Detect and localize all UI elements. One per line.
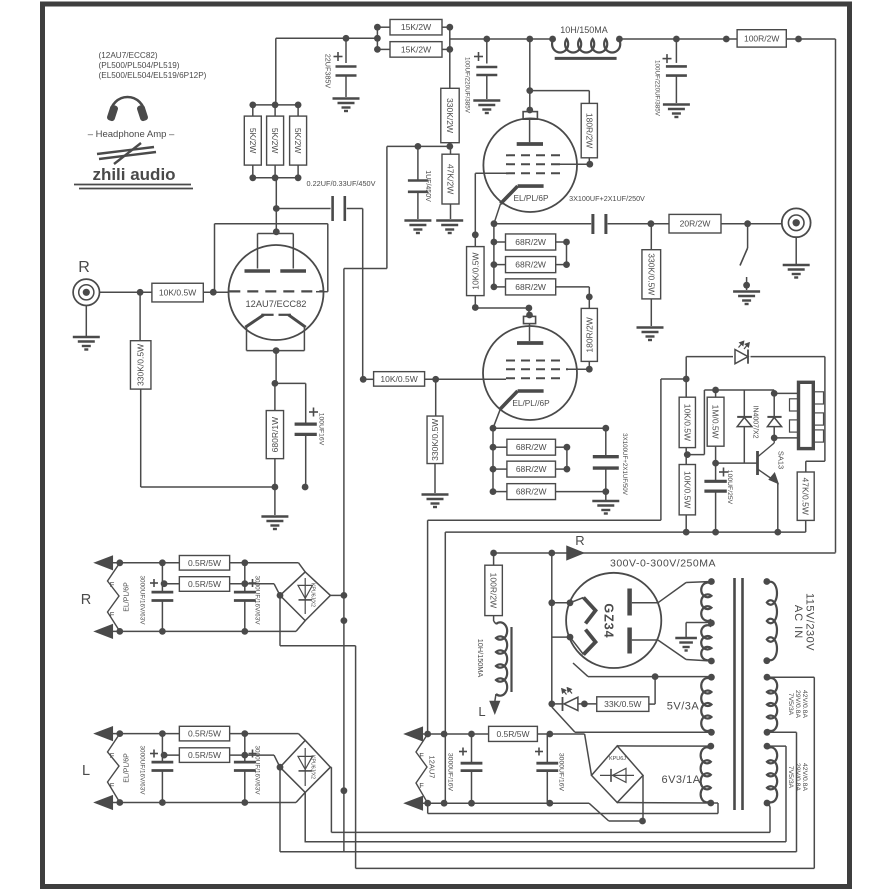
resistor 330K/2W (441, 88, 459, 142)
node 1M top (712, 387, 719, 394)
svg-text:KPU6J: KPU6J (609, 756, 626, 762)
wire coupling to lower grid (362, 209, 364, 380)
node mid 10K (684, 451, 691, 458)
V2 anode stem and plate (529, 119, 531, 142)
node R top row (116, 559, 123, 566)
wire 330K input leads (139, 292, 141, 340)
12AU7 grid dashes (229, 290, 323, 292)
node AC primary terminals (763, 578, 770, 585)
ground below 1UF/450V (404, 219, 431, 221)
LED indicator (bias) (735, 350, 748, 364)
node grid input (210, 289, 217, 296)
wire secondary link W5 top (767, 676, 814, 678)
svg-text:3X100UF+2X1UF/50V: 3X100UF+2X1UF/50V (621, 433, 628, 496)
resistor 10K/0.5W (input) (152, 283, 203, 302)
tube V2 EL/PL/6P envelope (483, 118, 577, 212)
svg-text:15K/2W: 15K/2W (401, 22, 431, 32)
wire V2 control grid (475, 172, 506, 174)
wire V3 grid leads (363, 378, 374, 380)
capacitor 1UF/450V (417, 146, 419, 180)
svg-text:AC IN: AC IN (792, 605, 804, 639)
node bias bottom rail (683, 529, 690, 536)
wire 100R to choke (493, 553, 495, 565)
wire lower 180R leads (588, 297, 590, 309)
resistor 0.5R/5W (12AU7 heater) (489, 726, 538, 741)
wire 47K/2W leads (450, 146, 452, 154)
capacitor 22UF385V (345, 38, 347, 63)
capacitor 0.22UF coupling (276, 208, 330, 210)
svg-text:7V5/3A: 7V5/3A (787, 693, 794, 716)
zhili audio logo (97, 147, 154, 154)
resistor 0.5R/5W (L lower) (179, 748, 229, 763)
transformer secondary 7V5 (lower) (767, 747, 777, 802)
wire heater bottom row (422, 802, 589, 804)
V3 anode stem and plate (529, 324, 531, 341)
ground below 47K/2W (436, 219, 463, 221)
svg-text:10H/150MA: 10H/150MA (560, 25, 608, 35)
svg-text:(EL500/EL504/EL519/6P12P): (EL500/EL504/EL519/6P12P) (99, 71, 207, 80)
svg-text:1UF/450V: 1UF/450V (424, 170, 431, 202)
node bias rail taps (415, 143, 422, 150)
svg-text:0.5R/5W: 0.5R/5W (496, 729, 529, 739)
svg-text:68R/2W: 68R/2W (516, 442, 547, 452)
node R AC right (341, 592, 348, 599)
svg-text:F: F (110, 751, 115, 760)
svg-text:42V/0.8A: 42V/0.8A (801, 763, 808, 791)
ground below first filter cap (473, 99, 500, 101)
connector RCA output (782, 208, 811, 237)
wire secondary link W5 bottom (767, 731, 797, 733)
wire V3 330K leads (435, 379, 437, 416)
capacitor 100UF/220UF/385V (second) (675, 39, 677, 63)
svg-text:6V3/1A: 6V3/1A (661, 774, 700, 786)
wire heater top row (422, 733, 585, 735)
wire output RCA ground (795, 237, 797, 264)
svg-text:3000UF/16V: 3000UF/16V (447, 753, 454, 792)
resistor 68R/2W (lower 1) (507, 439, 556, 455)
node 15K left (374, 24, 381, 31)
wire V2 cathode resistor rail (493, 224, 495, 287)
svg-text:330K/0.5W: 330K/0.5W (430, 419, 440, 461)
node screen node (586, 161, 593, 168)
svg-text:(PL500/PL504/PL519): (PL500/PL504/PL519) (99, 61, 180, 70)
tube 12AU7/ECC82 envelope (229, 245, 324, 340)
node LED right (581, 701, 588, 708)
wire bias link upper (428, 519, 661, 521)
capacitor 3X100UF+2X1UF/50V bypass (605, 428, 607, 456)
capacitor 3X100UF+2X1UF/250V output (591, 214, 594, 234)
svg-text:R: R (81, 592, 91, 608)
wire secondary link W6 top (767, 745, 786, 747)
resistor 15K/2W (upper) (390, 19, 442, 35)
node bias top (683, 376, 690, 383)
wire 180R to screen (588, 158, 590, 164)
svg-text:5K/2W: 5K/2W (270, 128, 280, 154)
resistor 5K/2W (left) (244, 116, 261, 165)
12AU7 cathode bracket (246, 327, 248, 350)
svg-text:5K/2W: 5K/2W (248, 128, 258, 154)
resistor 33K/0.5W (597, 697, 649, 712)
wire V3 cathode resistor rail (492, 428, 494, 491)
node L top row (116, 730, 123, 737)
resistor 100R/2W (choke feed) (485, 565, 503, 615)
node 15K right (446, 24, 453, 31)
svg-text:IN4007/X2: IN4007/X2 (752, 405, 759, 438)
wire 12AU7 anode feed (275, 178, 277, 232)
wire bias ground stem (274, 487, 276, 515)
capacitor 3000UF/16V/63V (L second) (244, 734, 246, 762)
transformer secondary 7V5 (upper) (767, 678, 777, 731)
node V3 grid (360, 376, 367, 383)
resistor 180R/2W (lower) (581, 308, 597, 361)
svg-text:68R/2W: 68R/2W (515, 282, 546, 292)
node lower secondary terminals (764, 743, 771, 750)
wire bias link lower (444, 532, 446, 803)
node GZ34 output to LED (548, 599, 555, 606)
svg-text:10K/0.5W: 10K/0.5W (682, 471, 692, 508)
12AU7 anode bracket (258, 233, 294, 235)
node 6V3 winding terminals (707, 743, 714, 750)
wire HV center tap (698, 622, 712, 624)
svg-text:100UF/220UF/385V: 100UF/220UF/385V (654, 60, 661, 117)
svg-text:180R/2W: 180R/2W (584, 113, 594, 148)
capacitor 100UF/25V (715, 463, 717, 481)
V3 cathode bar and slant (518, 389, 544, 393)
svg-text:0.5R/5W: 0.5R/5W (188, 729, 221, 739)
svg-text:29V/0.8A: 29V/0.8A (794, 690, 801, 718)
svg-text:L: L (478, 704, 485, 719)
node upper 68R (491, 239, 498, 246)
wire L bridge AC right (330, 766, 331, 768)
svg-text:EL/PL/6P: EL/PL/6P (124, 753, 131, 783)
node R bridge left (277, 592, 284, 599)
wire R net rail (494, 552, 836, 554)
resistor 68R/2W (lower 3) (507, 484, 556, 500)
capacitor 3000UF/16V (second) (546, 734, 548, 763)
switch at output (747, 224, 749, 248)
wire KPU6J DC minus (589, 803, 609, 821)
bridge rectifier KPU6J/X2 (L) (280, 740, 330, 792)
diode IN4007 (second) (773, 393, 775, 417)
node cathode rail (491, 220, 498, 227)
svg-text:0.5R/5W: 0.5R/5W (188, 750, 221, 760)
svg-text:F: F (419, 751, 424, 760)
capacitor 3000UF/16V/63V (R second) (244, 563, 246, 592)
resistor 0.5R/5W (R upper) (179, 556, 229, 571)
wire diode to socket (774, 392, 798, 394)
capacitor 3000UF/16V/63V (L first) (161, 734, 163, 762)
L heater zigzag (108, 734, 120, 803)
bridge rectifier KPU6J (heater) (592, 746, 644, 803)
wire L bridge AC left (279, 767, 281, 852)
node heater top row (424, 731, 431, 738)
GZ34 filament leads (552, 602, 570, 604)
transistor SA13 (716, 462, 758, 464)
svg-text:3000UF/16V: 3000UF/16V (558, 753, 565, 792)
svg-text:330K/2W: 330K/2W (445, 98, 455, 133)
12AU7 lower grid dashes (261, 314, 273, 316)
wire L top to bridge (299, 734, 306, 741)
resistor 47K/0.5W (797, 472, 814, 520)
ground below output RCA (783, 264, 810, 266)
ground below V3 330K (422, 493, 449, 495)
resistor 20R/2W (669, 214, 721, 233)
wire B+ to top cap (529, 39, 531, 112)
capacitor 100UF16V (275, 382, 306, 384)
svg-text:12AU7: 12AU7 (428, 756, 437, 779)
resistor 1M/0.5W (707, 397, 724, 446)
node 12AU7 anode top (273, 228, 280, 235)
wire 15K left junction (377, 26, 390, 28)
svg-text:5K/2W: 5K/2W (293, 128, 303, 154)
node diode2 top (771, 390, 778, 397)
svg-text:100R/2W: 100R/2W (744, 33, 779, 43)
resistor 330K/0.5W (output) (642, 250, 661, 299)
wire RCA ground stem (85, 306, 87, 337)
node L bridge left (277, 764, 284, 771)
resistor 330K/0.5W (V3 grid) (427, 416, 443, 464)
svg-text:(12AU7/ECC82): (12AU7/ECC82) (99, 51, 158, 60)
svg-text:47K/0.5W: 47K/0.5W (801, 478, 811, 515)
wire AC interconnect vertical (355, 646, 357, 869)
wire 47K/0.5W bottom (805, 520, 807, 532)
svg-text:22UF385V: 22UF385V (324, 54, 333, 89)
svg-text:47K/2W: 47K/2W (446, 164, 456, 194)
wire 680R bottom (274, 459, 276, 487)
wire R top to bridge (299, 563, 306, 572)
wire B+ rail (450, 38, 554, 40)
svg-text:GZ34: GZ34 (602, 603, 616, 638)
wire B+ feed to 5K bank (276, 37, 378, 39)
wire R bridge AC right (330, 594, 344, 596)
svg-text:10K/0.5W: 10K/0.5W (470, 252, 480, 289)
svg-text:20R/2W: 20R/2W (680, 219, 711, 229)
resistor 330K/0.5W (input) (130, 341, 151, 389)
svg-text:EL/PL//6P: EL/PL//6P (512, 398, 550, 408)
wire L heater bottom row (112, 802, 296, 804)
GZ34 anode bars (627, 589, 632, 616)
wire V3 cathode rail (493, 427, 606, 429)
svg-text:zhili audio: zhili audio (92, 165, 175, 184)
wire R heater mid row (162, 583, 179, 585)
transformer HV winding 300-0-300 (701, 583, 711, 621)
heater F arrow top (12AU7) (405, 728, 422, 741)
node lower screen (586, 366, 593, 373)
wire bias bottom rail (445, 531, 805, 533)
wire GZ34 anode to HV bottom (632, 639, 658, 641)
wire V2 cathode rail (493, 223, 591, 225)
heater F arrow bottom (R) (95, 625, 112, 638)
svg-text:5V/3A: 5V/3A (667, 701, 700, 713)
resistor 10K/0.5W (V3 grid) (374, 372, 425, 387)
node R bottom row (116, 628, 123, 635)
12AU7 heater zigzag (416, 734, 428, 803)
resistor 68R/2W (upper 1) (506, 234, 556, 250)
diode IN4007 (first) (743, 390, 745, 417)
node 5K bottom (249, 174, 256, 181)
node L bottom row (116, 799, 123, 806)
socket connector (799, 382, 814, 448)
node KPU6J minus (639, 818, 646, 825)
wire KPU6J AC top (617, 745, 711, 747)
svg-text:68R/2W: 68R/2W (516, 464, 547, 474)
svg-text:68R/2W: 68R/2W (516, 487, 547, 497)
svg-text:10K/0.5W: 10K/0.5W (380, 374, 417, 384)
wire input to 10K (100, 291, 152, 293)
resistor 15K/2W (lower) (390, 42, 442, 58)
node switch bottom (743, 282, 750, 289)
ground below 680R (261, 515, 288, 517)
wire R heater bottom row (112, 630, 296, 632)
wire lower 68R stubs (493, 446, 507, 448)
wire L bridge bottom link (304, 792, 306, 841)
wire LED feed (686, 356, 733, 358)
resistor 10K/0.5W (interstage) (467, 247, 485, 296)
wire bias lower 10K bottom (685, 515, 687, 532)
V2 cathode bar and slant (518, 184, 544, 188)
node cathode bias top (272, 380, 279, 387)
ground below switch (733, 290, 760, 292)
svg-text:F: F (110, 580, 115, 589)
svg-text:100UF/220UF/385V: 100UF/220UF/385V (464, 57, 471, 114)
svg-text:330K/0.5W: 330K/0.5W (646, 253, 656, 295)
tube V2 top cap (523, 112, 537, 120)
LED indicator (L rail) (552, 703, 563, 705)
wire 5V winding top (588, 676, 711, 678)
transformer 5V winding (701, 678, 711, 731)
svg-text:F: F (110, 781, 115, 790)
wire 5V winding bottom (575, 731, 711, 733)
svg-text:10K/0.5W: 10K/0.5W (682, 404, 692, 441)
transformer 6V3 winding (701, 747, 711, 802)
node upper secondary terminals (764, 674, 771, 681)
svg-text:0.5R/5W: 0.5R/5W (188, 579, 221, 589)
wire V2 cathode to V3 anode (474, 296, 476, 308)
node 12AU7 cathode (273, 347, 280, 354)
wire 33K to 5V winding (649, 703, 655, 705)
R net arrow (567, 547, 583, 560)
svg-text:3X100UF+2X1UF/250V: 3X100UF+2X1UF/250V (569, 194, 645, 203)
svg-text:330K/0.5W: 330K/0.5W (136, 344, 146, 386)
R heater zigzag (108, 563, 120, 632)
wire 330K output leads (650, 224, 652, 250)
node R mid row (161, 580, 168, 587)
svg-text:29V/0.8A: 29V/0.8A (794, 763, 801, 791)
connector RCA input R (73, 279, 99, 305)
svg-text:KPU6J/X2: KPU6J/X2 (310, 755, 316, 779)
svg-text:680R/1W: 680R/1W (270, 417, 280, 452)
wire 5K top rail (253, 104, 298, 106)
wire B+ takeoff (551, 553, 553, 707)
wire 5K bottom rail (252, 165, 254, 178)
svg-text:3000UF/16V/63V: 3000UF/16V/63V (139, 575, 146, 625)
svg-text:KPU6J/X2: KPU6J/X2 (310, 583, 316, 607)
svg-text:42V/0.8A: 42V/0.8A (801, 690, 808, 718)
node B+ rail taps (483, 36, 490, 43)
node plate feed (526, 87, 533, 94)
node 22UF tap (343, 35, 350, 42)
12AU7 anode plates (245, 269, 271, 273)
svg-text:F: F (110, 610, 115, 619)
resistor 10K/0.5W (bias lower) (679, 465, 695, 515)
svg-text:1M/0.5W: 1M/0.5W (711, 405, 721, 439)
node lower 68R (490, 444, 497, 451)
wire 15K right junction (442, 26, 450, 28)
capacitor 3000UF/16V/63V (R first) (161, 563, 163, 592)
node input junction (137, 289, 144, 296)
svg-text:10K/0.5W: 10K/0.5W (159, 288, 196, 298)
node heater bottom row (424, 800, 431, 807)
node 5V winding terminals (708, 674, 715, 681)
node R net (490, 550, 497, 557)
heater F arrow top (R) (95, 556, 112, 569)
wire upper 68R stubs (494, 241, 506, 243)
resistor 47K/2W (442, 154, 459, 204)
svg-text:F: F (419, 781, 424, 790)
svg-text:0.22UF/0.33UF/450V: 0.22UF/0.33UF/450V (307, 179, 376, 188)
svg-text:– Headphone Amp –: – Headphone Amp – (88, 129, 175, 140)
ground below bypass cap (592, 500, 619, 502)
svg-text:3000UF/16V/63V: 3000UF/16V/63V (254, 575, 261, 625)
wire GZ34 anode to HV top (632, 602, 658, 604)
resistor 0.5R/5W (R lower) (179, 577, 229, 592)
node diode2 bottom (771, 435, 778, 442)
V2 grid rows (506, 154, 560, 156)
heater F arrow bottom (L) (95, 796, 112, 809)
svg-text:68R/2W: 68R/2W (515, 237, 546, 247)
resistor 10K/0.5W (bias upper) (679, 397, 695, 447)
transformer core (733, 578, 736, 810)
resistor 68R/2W (lower 2) (507, 461, 556, 477)
inductor 10H/150MA (top choke) (552, 39, 620, 53)
svg-text:12AU7/ECC82: 12AU7/ECC82 (246, 299, 307, 309)
transformer AC primary (767, 582, 777, 660)
svg-text:100R/2W: 100R/2W (489, 573, 499, 608)
tube V3 top cap (524, 316, 536, 323)
wire heater return loop (427, 803, 429, 813)
GZ34 filament chevrons (584, 598, 596, 624)
resistor 68R/2W (upper 2) (506, 257, 556, 273)
inductor 10H/150MA (L channel choke) (496, 622, 507, 695)
wire 330K/2W leads (449, 49, 451, 88)
svg-text:100UF16V: 100UF16V (318, 413, 325, 446)
wire L heater top row (112, 733, 298, 735)
headphone icon (111, 97, 145, 114)
tube GZ34 envelope (566, 573, 661, 668)
resistor 680R/1W (266, 411, 283, 459)
wire 10K to grid (203, 291, 229, 293)
heater F arrow top (L) (95, 727, 112, 740)
svg-text:68R/2W: 68R/2W (515, 260, 546, 270)
node HV winding terminals (708, 578, 715, 585)
svg-text:10H/150MA: 10H/150MA (476, 639, 485, 678)
svg-text:15K/2W: 15K/2W (401, 44, 431, 54)
resistor 100R/2W (top right) (737, 30, 786, 47)
resistor 5K/2W (right) (290, 116, 307, 165)
wire KPU6J DC plus (585, 734, 592, 775)
node base node (712, 460, 719, 467)
wire secondary link W6 bottom (767, 803, 770, 807)
svg-text:L: L (82, 763, 90, 779)
node bias bottom rail (272, 484, 279, 491)
svg-text:3000UF/16V/63V: 3000UF/16V/63V (254, 745, 261, 795)
node anode/coupling tap (273, 205, 280, 212)
node interstage (472, 304, 479, 311)
node V3 cathode (490, 425, 497, 432)
wire R bridge AC left (279, 595, 281, 645)
svg-text:180R/2W: 180R/2W (584, 317, 594, 352)
wire KPU6J AC bottom (617, 802, 711, 805)
